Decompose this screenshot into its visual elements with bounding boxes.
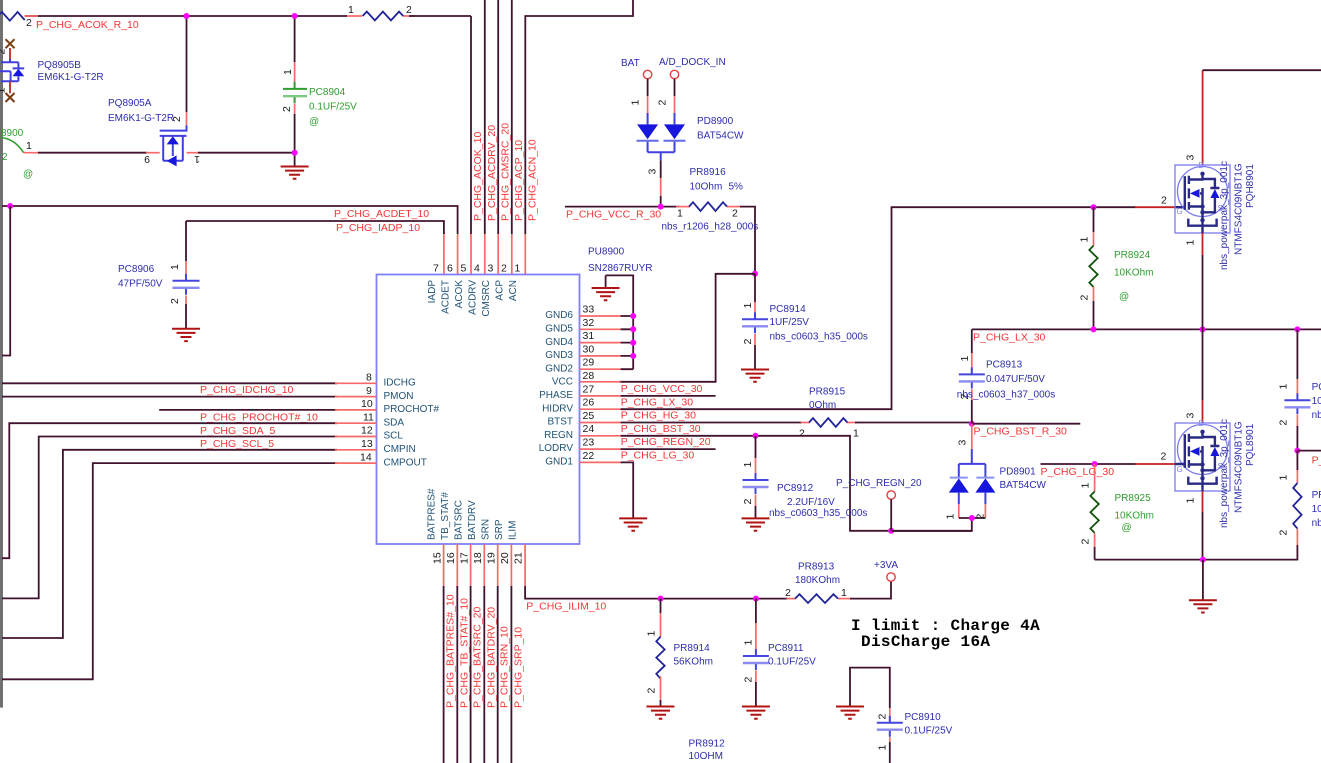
svg-text:nbs_powerpak_3p_001c: nbs_powerpak_3p_001c	[1219, 419, 1230, 528]
svg-text:PR8: PR8	[1312, 490, 1321, 501]
wire pin10 PROCHOT#	[159, 409, 376, 411]
IC top pin numbers	[433, 263, 521, 275]
svg-text:SRP: SRP	[494, 519, 505, 540]
svg-text:P_CHG_TB_STAT#_10: P_CHG_TB_STAT#_10	[458, 598, 470, 708]
ground top near IC	[605, 275, 607, 288]
ground under PC8911	[742, 707, 770, 719]
svg-text:P_CHG_BATPRES#_10: P_CHG_BATPRES#_10	[445, 594, 457, 708]
svg-text:P_CHG_BATSRC_20: P_CHG_BATSRC_20	[472, 606, 484, 708]
svg-text:2: 2	[1080, 539, 1092, 545]
capacitor PC8914	[742, 274, 768, 370]
capacitor PC8912	[742, 436, 769, 519]
svg-text:1: 1	[1080, 483, 1092, 489]
svg-text:HIDRV: HIDRV	[542, 403, 573, 414]
svg-text:2: 2	[2, 152, 8, 163]
junction dot (660.7,206.6)	[658, 204, 664, 210]
transistor PQ8905B	[0, 39, 24, 102]
resistor partial top-left	[0, 12, 38, 29]
svg-text:2.2UF/16V: 2.2UF/16V	[787, 497, 835, 508]
svg-text:180KOhm: 180KOhm	[795, 575, 840, 586]
svg-text:ACOK: ACOK	[454, 280, 465, 309]
svg-text:P_CHG_BST_R_30: P_CHG_BST_R_30	[974, 426, 1068, 438]
svg-text:P_CHG_VCC_R_30: P_CHG_VCC_R_30	[566, 209, 661, 221]
junction dot (971.8,518)	[969, 515, 975, 521]
svg-text:PR8915: PR8915	[809, 387, 846, 398]
svg-text:14: 14	[360, 451, 372, 463]
svg-text:1: 1	[630, 100, 642, 106]
svg-text:27: 27	[583, 383, 595, 395]
junction dot (1202.6,329.4)	[1200, 326, 1206, 332]
svg-text:nbs_r1206_h28_000s: nbs_r1206_h28_000s	[662, 222, 759, 233]
svg-text:22: 22	[583, 450, 595, 462]
resistor PR8913	[785, 587, 847, 603]
svg-text:1: 1	[841, 587, 847, 599]
svg-text:P_CHG_IADP_10: P_CHG_IADP_10	[336, 222, 420, 234]
svg-text:1: 1	[742, 640, 754, 646]
svg-text:21: 21	[513, 552, 525, 564]
svg-text:29: 29	[583, 357, 595, 369]
svg-text:1: 1	[282, 69, 294, 75]
resistor PR8916	[677, 202, 738, 219]
ground bottom-right	[1202, 560, 1204, 600]
svg-text:6: 6	[447, 263, 453, 275]
svg-text:P_CHG_LG_30: P_CHG_LG_30	[1041, 466, 1115, 478]
svg-text:D: D	[1199, 419, 1205, 428]
svg-text:ACN: ACN	[508, 280, 519, 301]
terminal BAT	[621, 58, 652, 79]
svg-text:1: 1	[26, 140, 32, 152]
svg-text:1: 1	[853, 428, 859, 440]
capacitor PC8910	[876, 708, 903, 763]
svg-text:2: 2	[1278, 530, 1290, 536]
terminal +3VA	[874, 560, 898, 581]
svg-text:@: @	[1122, 523, 1132, 534]
svg-text:2: 2	[501, 263, 507, 275]
svg-text:P_CHG_IDCHG_10: P_CHG_IDCHG_10	[200, 384, 294, 396]
svg-text:0Ohm: 0Ohm	[809, 400, 836, 411]
svg-text:BATPRES#: BATPRES#	[427, 488, 438, 540]
svg-text:5%: 5%	[729, 182, 744, 193]
svg-text:P_CHG_SDA_5: P_CHG_SDA_5	[200, 425, 275, 437]
diode PD8900	[630, 79, 686, 207]
svg-text:2: 2	[732, 208, 738, 220]
wire P_CHG_VCC_R_30	[565, 206, 679, 208]
svg-text:CMPIN: CMPIN	[384, 444, 416, 455]
junction dot (1093.5,207.5)	[1091, 204, 1097, 210]
capacitor PC8906	[169, 221, 200, 329]
svg-text:1: 1	[1278, 475, 1290, 481]
svg-text:2: 2	[281, 106, 293, 112]
svg-text:P_CHG_BATDRV_20: P_CHG_BATDRV_20	[485, 607, 497, 708]
svg-text:LODRV: LODRV	[539, 443, 574, 454]
svg-text:1: 1	[646, 631, 658, 637]
wire BTST pin25	[580, 422, 972, 424]
svg-text:1: 1	[959, 356, 971, 362]
svg-text:2: 2	[1161, 195, 1167, 207]
svg-text:2: 2	[742, 499, 754, 505]
IC PU8900 outline	[377, 275, 580, 545]
svg-text:11: 11	[363, 411, 374, 423]
wire P_CHG_IADP_10	[186, 221, 444, 275]
svg-text:32: 32	[583, 317, 595, 329]
sheet connector 8900	[1, 128, 33, 180]
svg-text:2: 2	[646, 688, 658, 694]
svg-text:0.047UF/50V: 0.047UF/50V	[986, 374, 1045, 385]
wire pin14 CMPOUT staircase	[2, 463, 377, 679]
svg-text:@: @	[23, 169, 33, 180]
svg-text:1: 1	[515, 263, 521, 275]
svg-text:VCC: VCC	[552, 377, 573, 388]
svg-text:0.1UF/25V: 0.1UF/25V	[905, 726, 953, 737]
junction dot (1093.5,329.4)	[1091, 326, 1097, 332]
svg-text:P_CHG_SRN_10: P_CHG_SRN_10	[499, 626, 511, 708]
svg-text:1: 1	[1185, 240, 1197, 246]
svg-text:PC8911: PC8911	[768, 643, 804, 654]
wire pin13 CMPIN staircase	[2, 450, 377, 638]
svg-text:PC8904: PC8904	[309, 87, 346, 98]
svg-text:2: 2	[799, 428, 805, 440]
wire pin8 IDCHG	[2, 382, 377, 384]
svg-text:24: 24	[583, 423, 595, 435]
junction dot (186.5,16)	[184, 13, 190, 19]
svg-text:1: 1	[1185, 498, 1197, 504]
ground under PC8906	[172, 329, 200, 341]
svg-text:1: 1	[1278, 384, 1290, 390]
svg-text:PR8912: PR8912	[689, 739, 726, 750]
svg-text:G: G	[1177, 465, 1183, 474]
svg-text:3: 3	[1185, 413, 1197, 419]
svg-text:2: 2	[657, 100, 669, 106]
svg-text:23: 23	[583, 437, 595, 449]
svg-text:26: 26	[583, 397, 595, 409]
svg-text:2: 2	[742, 339, 754, 345]
svg-text:BAT54CW: BAT54CW	[1000, 480, 1047, 491]
svg-text:1: 1	[1079, 237, 1091, 243]
svg-text:1: 1	[677, 208, 683, 220]
IC right pin names	[539, 310, 574, 467]
ground mid-bottom	[836, 707, 864, 719]
wire orphan gnd U	[850, 668, 890, 708]
svg-text:2: 2	[742, 677, 754, 683]
svg-text:P_CHG_ACN_10: P_CHG_ACN_10	[527, 139, 539, 221]
svg-text:P_CHG_SCL_5: P_CHG_SCL_5	[200, 438, 274, 450]
svg-text:PR8924: PR8924	[1114, 250, 1151, 261]
svg-text:IADP: IADP	[427, 280, 438, 304]
svg-text:10OHM: 10OHM	[689, 751, 723, 762]
IC right pin numbers	[583, 304, 595, 462]
svg-text:ACDET: ACDET	[441, 280, 452, 314]
svg-text:2: 2	[1278, 420, 1290, 426]
svg-text:1UF/25V: 1UF/25V	[770, 317, 810, 328]
svg-text:PQH8901: PQH8901	[1245, 164, 1256, 208]
svg-text:1: 1	[742, 462, 754, 468]
wire P_CHG_ACDET_10	[2, 206, 458, 275]
svg-text:P_CHG_LX_30: P_CHG_LX_30	[621, 396, 694, 408]
wire GND1 pin22	[580, 462, 634, 518]
wire pin12 SCL staircase	[2, 437, 377, 599]
svg-text:2: 2	[876, 714, 888, 720]
svg-text:2: 2	[169, 298, 181, 304]
svg-text:PQ8905B: PQ8905B	[38, 60, 82, 71]
svg-text:7: 7	[433, 263, 439, 275]
svg-text:P_CHG_ACDRV_20: P_CHG_ACDRV_20	[486, 125, 498, 221]
ground GND1	[619, 518, 647, 530]
svg-text:8900: 8900	[1, 128, 24, 139]
wire bus verticals pins 4,3,2	[485, 0, 512, 275]
wire bottom pins 15-20	[444, 544, 512, 763]
capacitor PC8913	[959, 329, 985, 423]
svg-text:EM6K1-G-T2R: EM6K1-G-T2R	[38, 72, 104, 83]
junction dot (755.9,598.6)	[753, 596, 759, 602]
terminal A/D_DOCK_IN	[659, 57, 726, 79]
svg-text:PC8910: PC8910	[905, 712, 942, 723]
transistor PQL8901	[1161, 400, 1231, 560]
junction dot (294.6,152.7)	[292, 150, 298, 156]
junction dot (294.6,16)	[292, 13, 298, 19]
resistor PR8914	[646, 599, 665, 707]
junction dot (891.2,530.8)	[888, 528, 894, 534]
diode PD8901	[892, 424, 995, 531]
svg-text:@: @	[309, 117, 319, 128]
svg-text:SCL: SCL	[384, 431, 404, 442]
wire ACN top path	[525, 0, 633, 234]
svg-text:GND6: GND6	[545, 310, 573, 321]
wire right-edge net stub	[1297, 450, 1321, 452]
junction dot (10.2,206)	[7, 203, 13, 209]
svg-text:P_CHG_BST_30: P_CHG_BST_30	[621, 423, 701, 435]
ground under PC8912	[742, 518, 770, 530]
resistor PR8924	[1079, 207, 1098, 329]
wire left edge riser SDA-ACDET branch	[2, 206, 10, 356]
svg-text:18: 18	[472, 552, 484, 564]
svg-text:1: 1	[348, 4, 354, 16]
wire source line y153	[24, 152, 295, 154]
wire REGN pin24	[580, 436, 972, 531]
svg-text:3: 3	[1185, 155, 1197, 161]
svg-text:GND3: GND3	[545, 350, 573, 361]
svg-text:19: 19	[486, 552, 498, 564]
wire HIDRV pin26 to high gate	[580, 207, 1185, 409]
svg-text:4: 4	[474, 263, 480, 275]
svg-text:P_CHG_VCC_30: P_CHG_VCC_30	[621, 383, 703, 395]
wire P_CHG_ACOK_R_10 top rail	[25, 15, 471, 17]
IC left pin names	[384, 378, 440, 469]
wire P_CHG_LX_30 right	[972, 328, 1321, 330]
svg-text:SRN: SRN	[481, 519, 492, 540]
wire GND rail pins 33-29	[580, 275, 634, 369]
capacitor PC8904	[281, 16, 307, 153]
svg-text:2: 2	[406, 4, 412, 16]
svg-text:17: 17	[459, 552, 471, 564]
svg-text:PMON: PMON	[384, 391, 414, 402]
wire ILIM pin21	[525, 544, 891, 598]
svg-text:3: 3	[957, 440, 969, 446]
svg-text:12: 12	[361, 425, 373, 437]
svg-text:ILIM: ILIM	[508, 521, 519, 540]
svg-text:P_CHG_PROCHOT#_10: P_CHG_PROCHOT#_10	[200, 412, 318, 424]
wire pin9 PMON	[2, 396, 377, 398]
svg-text:BATSRC: BATSRC	[454, 500, 465, 540]
svg-text:SN2867RUYR: SN2867RUYR	[588, 263, 652, 274]
junction dot (971.8,423.7)	[969, 421, 975, 427]
svg-text:nbs_c0603_h35_000s: nbs_c0603_h35_000s	[770, 332, 868, 343]
svg-text:10: 10	[361, 398, 373, 410]
junction dot (1202.9,559.6)	[1200, 557, 1206, 563]
svg-text:P_CHG_SRP_10: P_CHG_SRP_10	[512, 627, 524, 708]
svg-text:31: 31	[583, 330, 595, 342]
IC left pin numbers	[360, 372, 374, 464]
svg-text:P_CHG_REGN_20: P_CHG_REGN_20	[836, 478, 922, 489]
svg-text:BAT54CW: BAT54CW	[697, 131, 744, 142]
svg-text:REGN: REGN	[544, 430, 573, 441]
svg-text:PR8916: PR8916	[690, 167, 727, 178]
capacitor PC8911	[742, 599, 769, 707]
resistor right-edge partial	[1278, 451, 1302, 560]
svg-text:10Ohm: 10Ohm	[690, 182, 723, 193]
svg-text:NTMFS4C09NBT1G: NTMFS4C09NBT1G	[1234, 163, 1245, 255]
svg-text:PC8914: PC8914	[770, 304, 807, 315]
wire P_CHG_LG_30	[1041, 463, 1185, 465]
svg-text:nbs_c0603_h35_000s: nbs_c0603_h35_000s	[769, 508, 867, 519]
svg-text:PR8925: PR8925	[1115, 493, 1152, 504]
junction dot (755.5,435.8)	[753, 433, 759, 439]
svg-text:2: 2	[1079, 295, 1091, 301]
ground under PC8914	[741, 370, 769, 382]
svg-text:ACDRV: ACDRV	[468, 280, 479, 315]
svg-text:25: 25	[583, 410, 595, 422]
svg-text:P_CHG_CMSRC_20: P_CHG_CMSRC_20	[500, 123, 512, 221]
svg-text:PD8900: PD8900	[697, 116, 734, 127]
wire IADP riser to pin5 ACOK	[470, 16, 472, 234]
svg-text:2: 2	[974, 514, 986, 520]
svg-text:1: 1	[0, 88, 8, 94]
terminal P_CHG_REGN_20	[836, 478, 922, 531]
ground under PR8914	[647, 707, 675, 719]
svg-text:15: 15	[432, 552, 444, 564]
svg-text:PC8913: PC8913	[986, 360, 1023, 371]
svg-text:nbs: nbs	[1312, 410, 1321, 421]
junction dot (755,273.8)	[752, 271, 758, 277]
svg-text:CMPOUT: CMPOUT	[384, 457, 427, 468]
resistor PR8915	[799, 418, 859, 439]
svg-text:20: 20	[499, 552, 511, 564]
svg-text:nbs_c0603_h37_000s: nbs_c0603_h37_000s	[957, 390, 1055, 401]
transistor PQ8905A	[144, 16, 200, 166]
junction dot (1094.6,463.5)	[1092, 461, 1098, 467]
svg-text:9: 9	[144, 153, 150, 165]
svg-text:PC8912: PC8912	[777, 483, 814, 494]
svg-text:PR8914: PR8914	[674, 643, 711, 654]
svg-text:GND2: GND2	[545, 363, 573, 374]
svg-text:ACP: ACP	[495, 280, 506, 301]
svg-text:PROCHOT#: PROCHOT#	[384, 404, 440, 415]
svg-text:BATDRV: BATDRV	[467, 500, 478, 540]
svg-text:P_CHG_LG_30: P_CHG_LG_30	[621, 450, 695, 462]
svg-text:0.1UF/25V: 0.1UF/25V	[768, 657, 816, 668]
wire P_CHG_BST_R_30	[972, 423, 1081, 425]
wire pin11 SDA staircase	[2, 423, 377, 558]
svg-text:10K: 10K	[1312, 504, 1321, 515]
svg-text:+3VA: +3VA	[874, 560, 898, 571]
svg-text:BAT: BAT	[621, 58, 640, 69]
svg-text:A/D_DOCK_IN: A/D_DOCK_IN	[659, 57, 726, 68]
resistor top-mid (IADP series)	[348, 4, 412, 20]
wire PHASE pin27	[580, 395, 716, 397]
svg-text:TB_STAT#: TB_STAT#	[440, 492, 451, 540]
svg-text:PR8913: PR8913	[798, 562, 835, 573]
transistor PQH8901	[1161, 155, 1230, 401]
svg-text:16: 16	[445, 552, 457, 564]
svg-text:9: 9	[366, 385, 372, 397]
svg-text:2: 2	[1161, 451, 1167, 463]
svg-text:@: @	[1119, 292, 1129, 303]
svg-text:DisCharge 16A: DisCharge 16A	[861, 633, 990, 651]
svg-text:SDA: SDA	[384, 417, 405, 428]
svg-text:P_CHG_REGN_20: P_CHG_REGN_20	[621, 436, 711, 448]
svg-text:1: 1	[742, 303, 754, 309]
svg-text:10KOhm: 10KOhm	[1114, 268, 1153, 279]
IC top pin names	[427, 280, 519, 317]
svg-text:nbs: nbs	[1312, 518, 1321, 529]
IC bottom pin numbers	[432, 552, 525, 564]
svg-text:2: 2	[0, 49, 8, 55]
svg-text:BTST: BTST	[547, 417, 573, 428]
svg-text:IDCHG: IDCHG	[384, 378, 416, 389]
svg-text:2: 2	[785, 587, 791, 599]
wire LODRV pin23	[580, 448, 716, 450]
svg-text:PD8901: PD8901	[1000, 467, 1037, 478]
svg-text:GND5: GND5	[545, 324, 573, 335]
svg-text:5: 5	[461, 263, 467, 275]
svg-text:GND1: GND1	[545, 457, 573, 468]
svg-text:P_CHG_ILIM_10: P_CHG_ILIM_10	[526, 601, 606, 613]
IC bottom pin names	[427, 488, 519, 540]
svg-text:47PF/50V: 47PF/50V	[118, 279, 163, 290]
junction dot (1297.4,329.4)	[1294, 326, 1300, 332]
wire VCC pin28 branch	[619, 274, 755, 382]
svg-text:13: 13	[361, 438, 373, 450]
svg-text:PC8: PC8	[1312, 382, 1321, 393]
svg-text:P_CHG_HG_30: P_CHG_HG_30	[621, 410, 696, 422]
svg-text:D: D	[1199, 161, 1205, 170]
svg-text:P_CHG_LX_30: P_CHG_LX_30	[973, 332, 1046, 344]
wire bottom-right ground rail	[1095, 559, 1298, 561]
svg-text:1: 1	[194, 153, 200, 165]
wire drain top right	[1202, 70, 1204, 165]
svg-text:CMSRC: CMSRC	[481, 280, 492, 317]
svg-text:PU8900: PU8900	[588, 247, 625, 258]
svg-text:P_CHG_ACP_10: P_CHG_ACP_10	[513, 140, 525, 221]
svg-text:PC8906: PC8906	[118, 264, 155, 275]
svg-text:PHASE: PHASE	[539, 390, 573, 401]
svg-text:56KOhm: 56KOhm	[674, 657, 713, 668]
svg-text:P_CHG_ACOK_10: P_CHG_ACOK_10	[472, 132, 484, 221]
svg-text:EM6K1-G-T2R: EM6K1-G-T2R	[108, 113, 174, 124]
svg-text:PQL8901: PQL8901	[1245, 423, 1256, 466]
svg-text:P_CHG_ACOK_R_10: P_CHG_ACOK_R_10	[36, 19, 139, 31]
resistor PR8925	[1080, 464, 1099, 560]
svg-text:1: 1	[876, 745, 888, 751]
svg-text:8: 8	[366, 372, 372, 384]
svg-text:nbs_powerpak_3p_001c: nbs_powerpak_3p_001c	[1219, 161, 1230, 270]
svg-text:30: 30	[583, 343, 595, 355]
svg-text:1: 1	[169, 264, 181, 270]
ground under PC8904	[294, 153, 296, 167]
svg-text:3: 3	[488, 263, 494, 275]
SHEET_EDGE	[0, 0, 3, 708]
svg-text:2: 2	[26, 17, 32, 29]
junction dot (1297.4,450.6)	[1294, 448, 1300, 454]
